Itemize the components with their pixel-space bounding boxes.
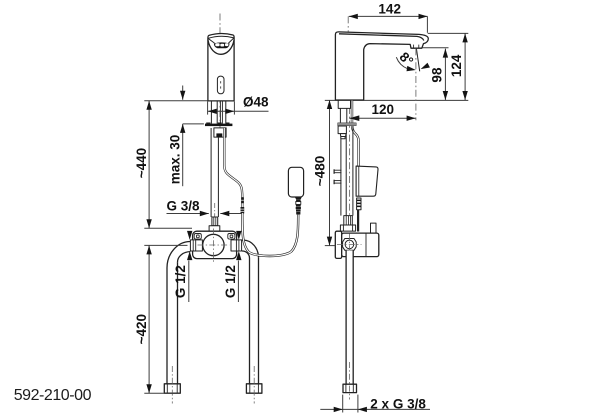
left foot: [164, 384, 180, 393]
faucet body front: [208, 33, 234, 100]
valve hex side: [343, 239, 357, 251]
dim 124: [464, 33, 466, 100]
valve ear left: [194, 234, 201, 240]
left pipe centerline: [171, 366, 173, 404]
cable below connector side: [357, 210, 359, 232]
valve left fitting: [190, 240, 202, 251]
valve body front: [193, 231, 237, 258]
shank collar side: [338, 100, 350, 108]
svg-text:124: 124: [449, 54, 464, 77]
aerator ticks side: [413, 45, 415, 48]
valve rod nut side: [340, 225, 355, 231]
left supply elbow: [167, 242, 190, 269]
dim 8 deg arc: [396, 57, 407, 68]
svg-text:G 1/2: G 1/2: [223, 265, 238, 298]
cable connector faucet side: [241, 197, 244, 203]
dim 142: [349, 15, 428, 17]
cable clamp on riser: [214, 128, 226, 137]
mounting pin upper: [333, 169, 335, 174]
dim 420: [148, 245, 150, 393]
cable U loop: [242, 213, 298, 256]
right foot: [246, 384, 262, 393]
svg-text:2 x G 3/8: 2 x G 3/8: [370, 396, 426, 411]
valve right fitting: [231, 240, 242, 251]
control box side: [356, 166, 378, 196]
mounting pin lower: [333, 180, 335, 185]
dim G1/2 arrows: [187, 231, 192, 240]
dim G3/8: [167, 213, 209, 215]
dim max30: [182, 86, 184, 100]
aerator front: [214, 42, 230, 48]
riser tube front: [210, 128, 212, 217]
centerline faucet front: [219, 14, 221, 138]
riser nut: [209, 226, 220, 232]
svg-text:~420: ~420: [134, 314, 149, 344]
shank above flange: [210, 102, 212, 124]
valve small cylinder side: [371, 223, 377, 233]
svg-text:142: 142: [378, 1, 401, 16]
sensor window: [217, 76, 224, 94]
svg-text:~480: ~480: [313, 156, 328, 186]
valve ear right: [228, 234, 235, 240]
dim 98: [444, 49, 446, 100]
dim 120: [349, 117, 415, 119]
shank nut side: [338, 126, 346, 134]
left supply pipe: [166, 269, 168, 384]
head rim inner line: [208, 36, 234, 38]
mounting flange front: [205, 124, 232, 127]
sensor cable side: [352, 101, 359, 167]
valve threaded rod side: [344, 216, 353, 225]
svg-text:Ø48: Ø48: [243, 94, 269, 109]
valve wall plate side: [335, 231, 341, 258]
foot side: [343, 384, 357, 392]
svg-text:120: 120: [372, 102, 395, 117]
G3/8 thread section: [212, 217, 218, 226]
svg-text:98: 98: [429, 67, 444, 83]
mounting surface baseline: [325, 99, 469, 101]
valve centerlines: [212, 229, 214, 264]
right supply elbow: [242, 240, 259, 258]
svg-text:G 3/8: G 3/8: [167, 198, 201, 213]
svg-text:8°: 8°: [397, 49, 417, 69]
side pipe centerline: [349, 362, 351, 400]
control box connector front: [295, 197, 302, 199]
svg-text:G 1/2: G 1/2: [173, 265, 188, 298]
svg-text:592-210-00: 592-210-00: [14, 387, 92, 404]
supply pipe side: [346, 250, 353, 384]
mounting flange side: [338, 123, 357, 126]
control box connector side: [357, 198, 361, 210]
spray axis 8 deg: [416, 48, 419, 71]
supply tubes side: [340, 139, 342, 216]
hood chamfer right: [229, 38, 234, 43]
valve hex centerlines: [348, 234, 350, 257]
centerline faucet side: [347, 16, 349, 103]
dim 440: [148, 101, 150, 229]
valve cartridge circle: [203, 234, 224, 255]
sensor cable front upper: [224, 128, 242, 197]
valve body side: [342, 233, 379, 257]
svg-text:max. 30: max. 30: [168, 135, 183, 185]
dim 480: [329, 100, 331, 246]
svg-text:~440: ~440: [134, 148, 149, 178]
right supply pipe: [258, 258, 260, 384]
spout lower edge front (smile arc): [208, 40, 234, 55]
dim 2xG3/8: [320, 408, 430, 410]
faucet body side profile: [335, 32, 428, 100]
dim Ø48: [207, 102, 209, 115]
right pipe centerline: [253, 366, 255, 404]
outlet centerline: [415, 48, 417, 120]
control box front: [288, 167, 303, 197]
spout inner top line: [339, 34, 424, 41]
hood chamfer left: [208, 39, 214, 44]
riser centerline: [214, 203, 216, 217]
